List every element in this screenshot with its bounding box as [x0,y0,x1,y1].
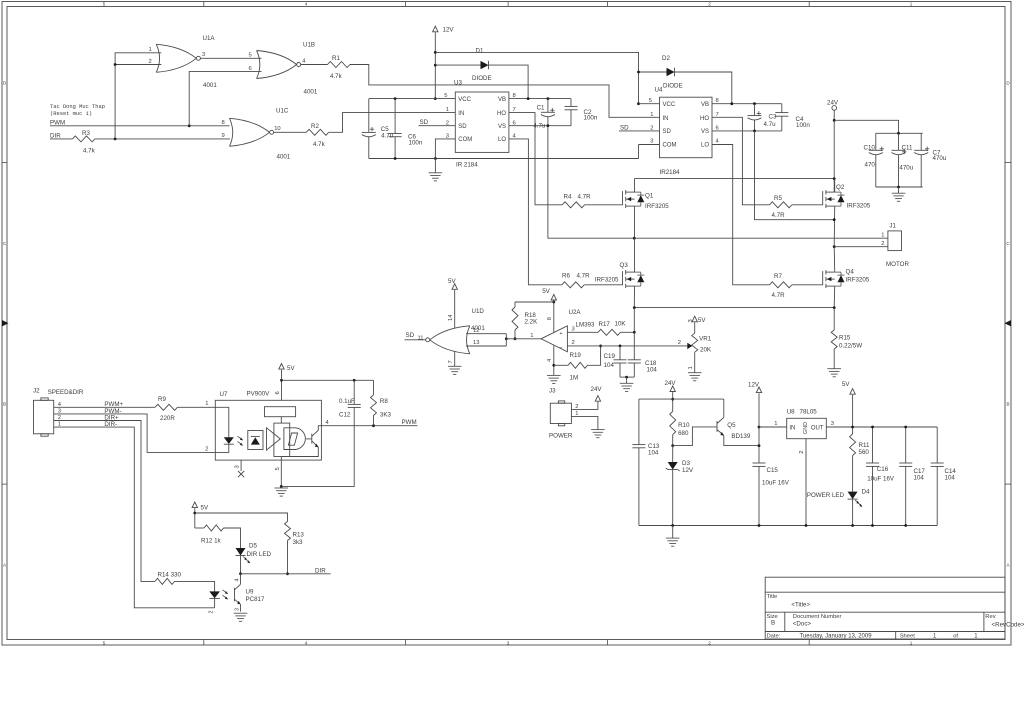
resistor R3 [73,136,95,142]
wire U7 pin5 to ground [280,460,282,488]
wire 5V to U1D pin14 [454,290,456,328]
capacitor C6 [394,99,396,134]
svg-text:J3: J3 [549,387,556,394]
zener D3 [672,446,674,462]
ground supply bus [672,526,674,539]
ground U2A [547,374,561,376]
svg-text:0.22/5W: 0.22/5W [839,343,862,350]
svg-text:Tac Dong Muc Thap: Tac Dong Muc Thap [50,104,105,110]
svg-text:104: 104 [604,362,615,369]
svg-text:R11: R11 [859,442,870,449]
svg-text:2: 2 [708,1,711,6]
power 5V at U1D [452,284,457,290]
wire phase A to J1 pin1 [634,237,888,239]
junction D2 anode on 12V leg [637,71,640,74]
power 5V at VR1 [692,316,697,322]
wire phase B to J1 pin2 [834,246,888,248]
svg-text:IN: IN [458,111,464,117]
svg-text:100n: 100n [409,140,423,147]
svg-text:DIODE: DIODE [472,75,492,82]
wire R6 to Q3 gate [584,284,622,286]
wire R3 to U1C pin 9 [95,138,230,140]
wire U3 COM to bus [435,139,455,159]
wire U9 collector to DIR [240,574,242,585]
svg-text:3: 3 [235,608,241,611]
svg-text:LO: LO [498,137,506,143]
capacitor C5 [368,99,370,133]
svg-text:2: 2 [149,59,152,65]
capacitor C19 [619,346,621,360]
svg-text:24V: 24V [827,99,839,106]
resistor R19 [568,362,587,368]
svg-text:U1D: U1D [472,308,485,315]
junction bottom bus [904,524,907,527]
svg-text:R6: R6 [562,272,570,279]
svg-text:3: 3 [446,134,449,140]
wire U3 VB line [509,98,571,100]
wire J2 pin4 PWM+ to R9 [54,406,155,408]
wire U1B output to R1 [301,64,328,66]
svg-text:R14 330: R14 330 [158,572,182,579]
svg-text:3: 3 [572,326,575,332]
nor gate U1B [257,51,260,79]
svg-text:Document Number: Document Number [793,614,842,620]
svg-text:R3: R3 [82,130,90,137]
svg-text:SD: SD [663,129,672,135]
svg-text:B: B [771,620,775,627]
resistor R15 [833,308,835,330]
wire 5V to U7 rail [281,370,283,401]
svg-text:J1: J1 [889,222,896,229]
wire SD to U3 pin2 [419,125,456,127]
svg-text:VCC: VCC [458,97,471,103]
wire SD to U1D output bubble [405,339,426,341]
wire sense bus [634,307,834,309]
svg-text:GND: GND [803,422,809,434]
svg-text:8: 8 [222,120,225,126]
wire U4 VB line [712,103,782,105]
junction VS-B tap [833,218,836,221]
svg-text:PC817: PC817 [246,596,265,603]
wire 12V rail down to U3 VCC [434,32,436,98]
svg-text:10: 10 [274,126,280,132]
power 5V at R12 [192,502,197,508]
svg-text:12: 12 [473,328,479,334]
wire U1B pin 6 feedback [189,72,261,126]
svg-text:5V: 5V [448,278,456,285]
junction D2 leg at VB [730,102,733,105]
svg-text:Q5: Q5 [727,422,736,429]
diode D1 [481,61,489,69]
junction 5V at R11 [851,426,854,429]
wire 24V into rail [672,392,674,411]
svg-text:0.1uF: 0.1uF [339,398,355,405]
svg-text:IRF3205: IRF3205 [645,203,669,210]
svg-text:Sheet: Sheet [900,634,916,640]
svg-text:1: 1 [205,401,208,407]
wire U1D pin13 [466,345,506,347]
svg-text:470u: 470u [899,164,913,171]
svg-text:R12 1k: R12 1k [201,538,222,545]
wire R2 to U3 IN [329,113,456,133]
junction C17 top [904,426,907,429]
svg-text:U2A: U2A [569,309,582,316]
svg-text:Q4: Q4 [846,269,855,276]
svg-text:5: 5 [649,98,652,104]
svg-text:12V: 12V [443,27,455,34]
svg-text:DIR: DIR [315,567,326,574]
wire R9 to U7 pin1 [177,406,215,408]
wire R7 to Q4 gate [792,284,823,286]
svg-text:SD: SD [406,332,415,339]
svg-text:OUT: OUT [811,425,824,431]
wire DIR to U1A input 1 [115,53,161,139]
junction C3 bottom VS tap [753,130,756,133]
capacitor C1 [547,99,549,113]
wire Q5 emitter to 12V node [724,436,759,446]
svg-text:PWM: PWM [50,119,65,126]
wire Q1 drain [634,179,636,193]
svg-text:R15: R15 [839,335,851,342]
svg-text:10uF 16V: 10uF 16V [867,475,895,482]
wire bus to U4 COM [638,145,640,159]
svg-text:2: 2 [208,611,214,614]
wire Q3 drain to phase A [634,238,636,272]
svg-text:COM: COM [663,142,677,148]
opto U7 input LED [215,407,229,437]
wire J3 pin1 to ground [571,416,598,429]
svg-text:SD: SD [458,124,467,130]
wire Q2 source down phase B [833,206,836,247]
junction PWM / U1B pin6 [188,124,191,127]
junction C12 top [353,379,356,382]
nor gate U1D [467,326,470,354]
svg-text:BD139: BD139 [731,433,750,440]
power 5V at U2A [551,294,556,300]
svg-text:470u: 470u [933,155,947,162]
svg-text:SPEED&DIR: SPEED&DIR [48,389,84,396]
svg-text:VB: VB [701,102,709,108]
svg-text:HO: HO [700,116,709,122]
wire PWM input to U1C pin 8 [50,125,230,127]
svg-text:HO: HO [497,111,506,117]
wire U1C output to R2 [274,131,307,133]
resistor R2 [306,129,328,135]
junction U7 5V tee [280,379,283,382]
wire DIR node [241,573,331,575]
wire J2 pin2 DIR+ down [54,421,155,582]
wire U4 VCC stub [639,103,660,105]
resistor R4 [562,202,584,208]
svg-text:2: 2 [881,241,884,247]
wire supply bottom bus [639,525,937,527]
svg-text:Q3: Q3 [620,262,629,269]
svg-text:3: 3 [650,139,653,145]
svg-text:3: 3 [688,319,694,322]
wire Q2 drain [834,179,836,193]
junction DIR / U1A inputs [114,138,117,141]
junction bottom bus [671,524,674,527]
svg-text:4.7R: 4.7R [772,292,786,299]
svg-text:Title: Title [767,594,778,600]
svg-text:DIR LED: DIR LED [247,551,272,558]
svg-text:5V: 5V [287,365,295,372]
junction 5V R18 tee [552,301,555,304]
wire phase B to Q4 drain [833,247,836,272]
wire 5V rail R12 R13 [194,508,196,528]
wire U4 VS line [712,130,782,132]
junction U1A input tie [114,63,117,66]
junction 24V rail [671,398,674,401]
svg-text:1: 1 [910,640,913,645]
svg-text:R7: R7 [774,273,782,280]
resistor R5 [770,202,792,208]
wire U1A out to U1B pin 5 [201,57,262,59]
svg-text:U8: U8 [787,408,795,415]
junction 24V rail at Q2 [833,177,836,180]
junction C6 top [394,97,397,100]
resistor R1 [328,62,350,68]
wire VS-B sense down to phase B [755,131,835,220]
svg-text:104: 104 [945,475,956,482]
svg-text:3: 3 [507,1,510,6]
wire U3 HO to R4 [509,113,562,205]
svg-text:R13: R13 [293,532,305,539]
svg-text:IRF3205: IRF3205 [595,277,619,284]
junction C12 return [280,485,283,488]
wire J2 pin3 PWM- to U7 pin2 [54,414,216,453]
svg-text:560: 560 [859,449,870,456]
wire D2 cathode to U4 VB [675,72,732,104]
wire U3 VCC line with C5 C6 [369,98,456,100]
svg-text:D5: D5 [249,543,257,550]
svg-text:5: 5 [103,1,106,6]
capacitor C16 [872,427,874,463]
svg-text:COM: COM [458,137,472,143]
svg-text:5V: 5V [201,505,209,512]
wire U4 LO to R7 [712,145,770,285]
svg-text:2: 2 [799,450,805,453]
svg-text:SD: SD [620,124,629,131]
junction C3 top [753,102,756,105]
node 24V terminal [832,106,837,111]
svg-text:PV900V: PV900V [247,391,271,398]
power 24V regulator [670,386,675,392]
svg-text:4.7u: 4.7u [764,121,777,128]
svg-text:U1B: U1B [303,42,315,49]
svg-text:VB: VB [498,97,506,103]
opto U7 photodiode [248,431,263,450]
wire Q4 source to sense bus [833,286,836,308]
junction bank bottom center [897,186,900,189]
wire cap bank top bus [876,132,923,134]
connector J2 SPEED&DIR [34,400,54,434]
svg-text:C11: C11 [902,144,913,151]
svg-text:C10: C10 [864,144,876,151]
wire 5V to R18 and U2A pin8 [553,301,555,333]
ic U3 IR2184 [455,92,509,152]
svg-text:5V: 5V [542,288,550,295]
power 5V regulator [850,389,855,395]
svg-text:C16: C16 [877,466,889,473]
svg-text:3K3: 3K3 [380,411,392,418]
svg-text:2: 2 [708,640,711,645]
wire R14 to U9 anode [175,581,215,591]
svg-text:C19: C19 [604,353,616,360]
transistor Q4 IRF3205 [822,271,824,285]
svg-text:C15: C15 [767,467,779,474]
wire R18 top [515,301,554,303]
diode D4 POWER LED [848,492,858,500]
resistor R6 [562,282,584,288]
svg-text:10K: 10K [615,320,627,327]
wire U3 VS line [509,125,571,127]
power 12V regulator [756,387,761,393]
svg-text:Q2: Q2 [836,184,845,191]
wire U7 top rail [282,379,374,381]
wire supply top rail [639,398,724,400]
junction U4 VCC [637,102,640,105]
svg-text:4: 4 [235,579,241,582]
capacitor C2 [570,99,572,107]
junction C6 bottom [394,157,397,160]
wire U8 IN [759,426,787,428]
svg-text:1M: 1M [570,374,579,381]
wire DIR input segment [50,138,73,140]
capacitor C18 [633,332,635,360]
svg-text:IN: IN [663,116,669,122]
svg-text:100n: 100n [796,122,810,129]
svg-text:D3: D3 [682,460,690,467]
wire D4 to bus [852,499,854,525]
wire R19 to pin2 net [587,346,600,365]
resistor R11 [850,434,856,456]
junction 12V at emitter [758,444,761,447]
wire U2A pin3 to R17 [567,331,598,333]
wire R17 to sense tap [620,331,634,333]
svg-text:1: 1 [688,366,694,369]
svg-text:470: 470 [865,162,876,169]
svg-text:R9: R9 [158,396,166,403]
junction bank top center [897,132,900,135]
wire J2 pin1 DIR- down [54,427,215,608]
junction C1 bottom VS tap [547,124,550,127]
wire U4 HO to R5 [712,117,770,205]
svg-text:D4: D4 [862,489,870,496]
svg-text:5V: 5V [842,381,850,388]
svg-text:VCC: VCC [663,102,676,108]
svg-text:14: 14 [448,314,454,321]
wire 24V rail to Q1 drain [634,178,834,180]
wire Q3 source to sense bus [633,286,635,308]
svg-text:D2: D2 [662,55,670,62]
junction sense bus right [833,306,836,309]
svg-text:3: 3 [507,640,510,645]
opto U7 schmitt gate [284,428,305,450]
svg-text:POWER: POWER [549,432,573,439]
junction bottom bus [805,524,808,527]
svg-text:R5: R5 [774,195,782,202]
svg-text:PWM: PWM [402,419,417,426]
svg-text:R2: R2 [311,123,319,130]
svg-text:B: B [3,402,6,407]
junction R19 top [599,345,602,348]
svg-text:+: + [559,331,562,337]
svg-text:<RevCode>: <RevCode> [992,621,1024,628]
junction C16 top [871,426,874,429]
svg-text:Tuesday, January 13, 2009: Tuesday, January 13, 2009 [800,634,873,640]
junction R8 bottom [372,424,375,427]
ground R15 [827,368,841,370]
wire R19 left [554,364,568,366]
junction 12V at U8 IN [758,426,761,429]
svg-text:100n: 100n [584,115,598,122]
resistor R14 [155,578,175,584]
junction J1 pin2 tap [833,245,836,248]
ground U7 [275,487,289,489]
svg-text:<Title>: <Title> [791,601,810,608]
junction C19 top [619,345,622,348]
capacitor C17 [905,427,907,463]
transistor Q5 BD139 [716,421,718,432]
wire rail to R13 [195,513,288,522]
resistor R18 [514,302,516,307]
wire 24V node down to rail [833,110,835,192]
opto U9 phototransistor [234,588,236,601]
svg-text:R17: R17 [599,321,611,328]
comparator U2A LM393 [541,326,567,352]
opto U9 PC817 input LED [209,591,220,598]
wire U8 OUT 5V line [826,426,937,428]
svg-text:4001: 4001 [304,89,318,96]
junction R18 bottom [514,337,517,340]
ground VR1 [688,372,702,374]
svg-text:12V: 12V [682,467,694,474]
svg-text:POWER LED: POWER LED [807,492,845,499]
svg-text:DIODE: DIODE [663,82,683,89]
resistor R13 [285,522,291,541]
svg-text:C12: C12 [339,411,351,418]
svg-text:104: 104 [914,475,925,482]
svg-text:4.7k: 4.7k [330,73,343,80]
capacitor C12 [353,380,355,404]
svg-text:J2: J2 [33,388,40,395]
capacitor C7 [920,133,922,150]
wire U7 pin4 PWM out [321,425,417,427]
svg-text:5V: 5V [698,317,706,324]
svg-text:4.7R: 4.7R [578,194,592,201]
svg-text:4.7R: 4.7R [577,272,591,279]
svg-text:3: 3 [234,465,240,468]
capacitor C14 [936,427,938,463]
wire U4 COM stub [639,144,660,146]
svg-text:2: 2 [678,340,681,346]
svg-text:12V: 12V [748,382,760,389]
junction filter ground stem [625,376,628,379]
wire cap bank bottom bus [876,186,923,188]
junction 12V to U4 feed [434,51,437,54]
svg-text:1: 1 [149,47,152,53]
svg-text:IN: IN [789,425,795,431]
svg-text:220R: 220R [160,415,175,422]
ground U9 [234,612,248,614]
junction 24V branch to caps [833,119,836,122]
wire U9 emitter to ground [240,604,242,611]
diode D2 anode wire [639,71,667,73]
resistor R7 [770,282,792,288]
wire VS-A sense down to phase A [548,126,634,239]
svg-text:U9: U9 [246,589,254,596]
